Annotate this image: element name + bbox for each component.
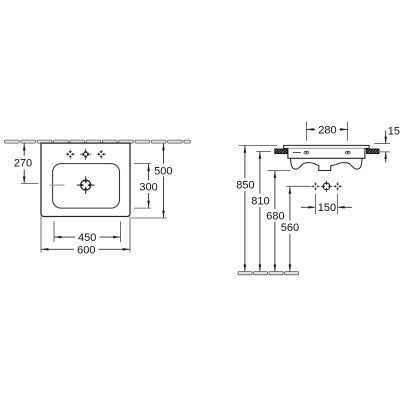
svg-text:560: 560 [281,222,299,234]
dimension 560 [287,185,311,187]
wall line (plan view, hatched wall strip) [5,140,191,143]
dimension 280 [305,122,307,141]
wall fixing hatch left [275,149,287,154]
svg-text:15: 15 [388,126,400,138]
tap hole centre [80,148,92,160]
edge line inside body [293,152,301,154]
svg-text:500: 500 [154,165,172,177]
dimension 600 [40,217,42,253]
dimension 850 [239,144,277,146]
tap hole left [66,150,75,159]
dimension 150 [315,194,317,215]
basin body (front view) [288,148,365,158]
dimension 300 [134,163,151,165]
inner basin rim [53,164,120,209]
dimension 500 [163,143,165,164]
svg-text:600: 600 [77,245,95,257]
centerline to drain [50,184,65,186]
drain outlet symbol [77,176,95,194]
svg-text:300: 300 [139,182,157,194]
svg-text:850: 850 [236,180,254,192]
svg-text:150: 150 [318,202,336,214]
basin underside profile with drain boss [291,158,363,170]
svg-text:280: 280 [318,124,336,136]
svg-text:810: 810 [251,195,269,207]
dimension 680 [268,170,291,172]
dimension 15 [385,131,387,144]
fixing hole left (slot) [304,151,309,154]
drain connection centre [321,181,332,192]
washbasin outer rim (plan) 600x500 [41,143,130,216]
tap hole right [97,150,106,159]
svg-text:270: 270 [14,158,32,170]
svg-text:450: 450 [78,232,96,244]
dimension 270 [23,143,25,156]
dimension 810 [257,150,271,152]
floor line (hatched floor strip) [238,272,299,275]
supply hole right [334,182,342,190]
fixing hole right (slot) [345,151,350,154]
wall fixing hatch right [367,149,380,154]
ceramic slab top (front view) [284,145,369,148]
supply hole left [311,182,319,190]
dimension 450 [53,222,55,243]
svg-text:680: 680 [266,210,284,222]
